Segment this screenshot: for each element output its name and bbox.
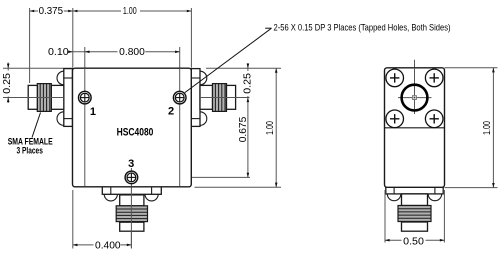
svg-text:0.25: 0.25 [242,73,253,94]
svg-text:1: 1 [90,106,96,118]
svg-text:HSC4080: HSC4080 [117,127,154,139]
svg-text:0.25: 0.25 [2,73,13,94]
svg-text:1.00: 1.00 [265,121,276,135]
svg-text:2-56 X 0.15 DP 3 Places (Tappe: 2-56 X 0.15 DP 3 Places (Tapped Holes, B… [274,23,451,33]
svg-text:3: 3 [128,158,134,170]
svg-text:0.50: 0.50 [403,236,424,247]
svg-text:1.00: 1.00 [123,6,137,17]
svg-text:0.10: 0.10 [48,47,69,58]
svg-text:0.375: 0.375 [39,6,64,17]
svg-text:2: 2 [168,105,174,117]
svg-text:3 Places: 3 Places [17,145,43,155]
svg-text:0.800: 0.800 [119,47,145,58]
svg-text:0.400: 0.400 [95,240,121,251]
svg-text:0.675: 0.675 [238,116,249,142]
svg-text:1.00: 1.00 [482,121,493,135]
